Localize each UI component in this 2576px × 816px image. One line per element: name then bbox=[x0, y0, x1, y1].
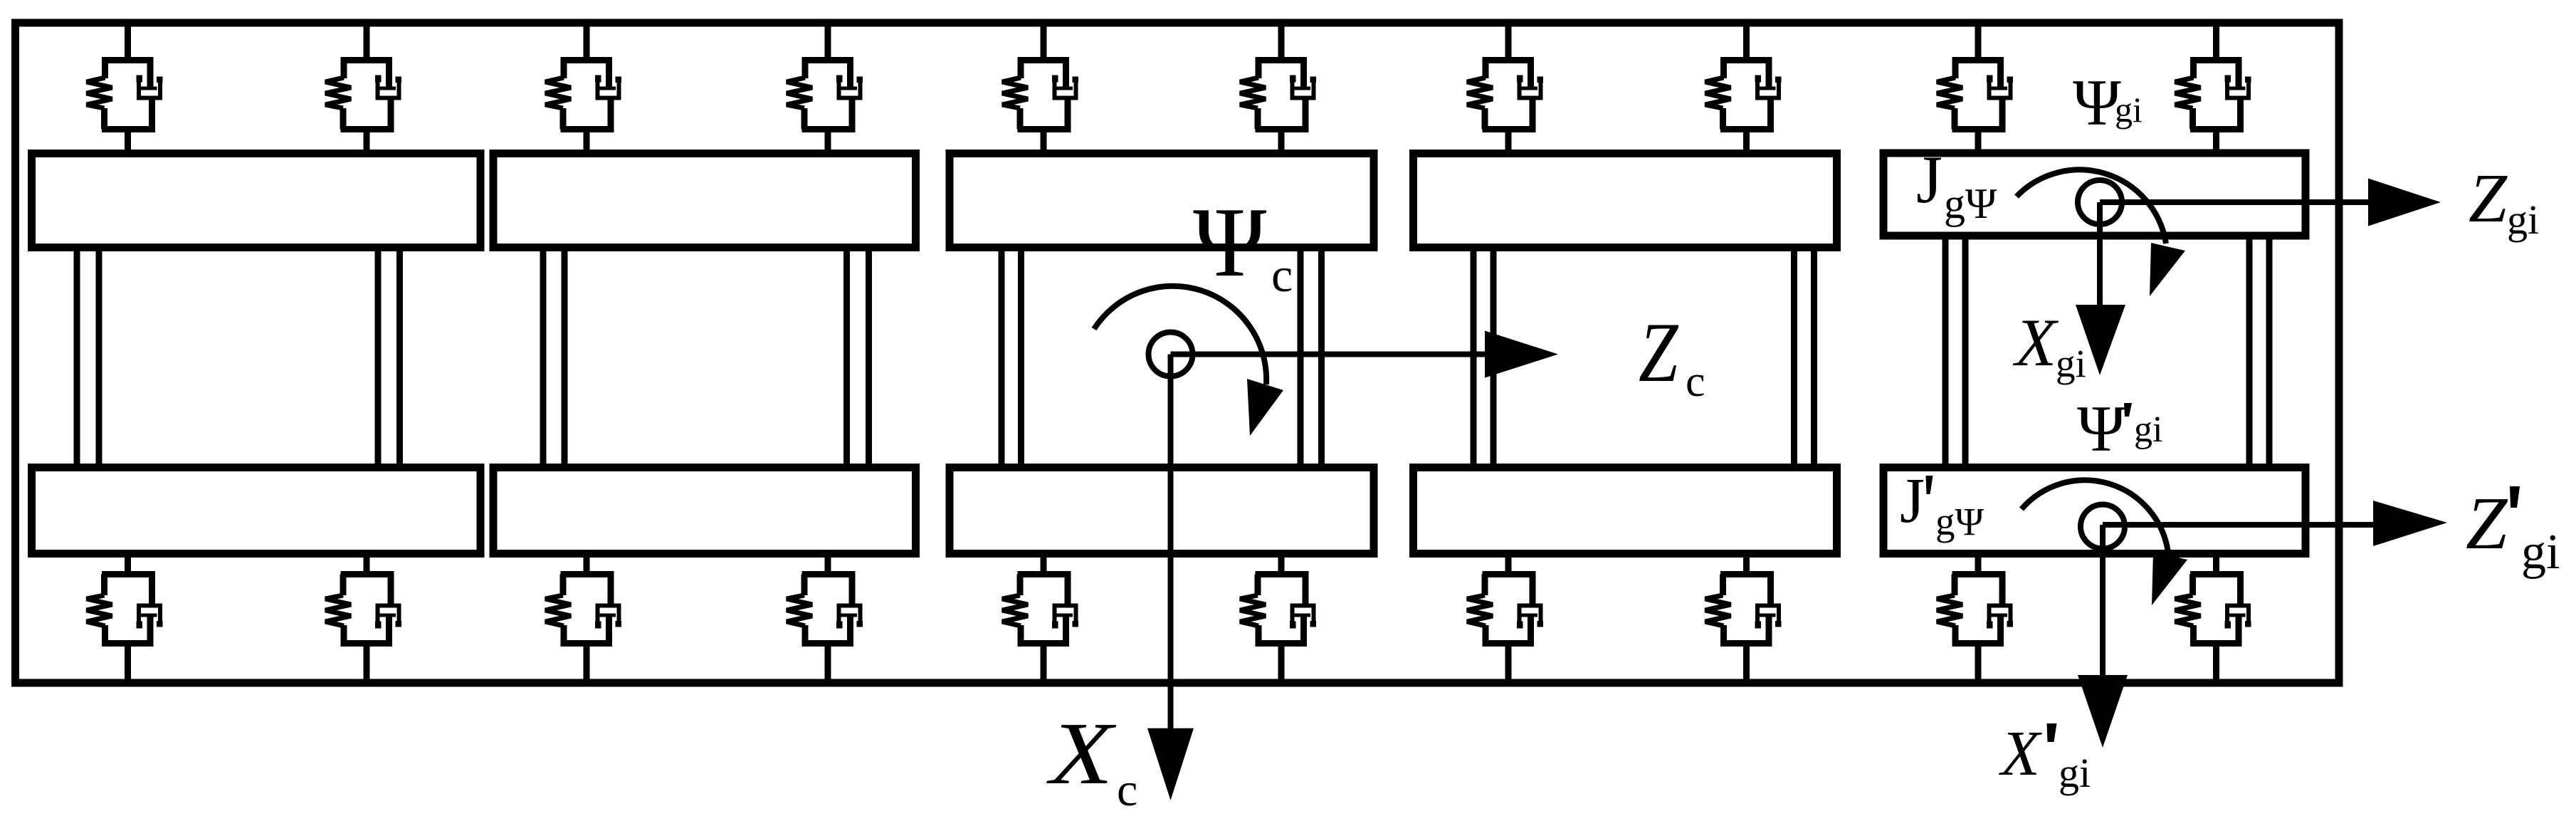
svg-text:Z: Z bbox=[2466, 481, 2508, 565]
svg-text:gi: gi bbox=[2521, 525, 2560, 580]
svg-text:X: X bbox=[1046, 704, 1118, 803]
svg-text:c: c bbox=[1686, 357, 1705, 406]
svg-text:Ψ: Ψ bbox=[2073, 66, 2121, 139]
svg-text:J: J bbox=[1916, 142, 1942, 217]
svg-text:gi: gi bbox=[2059, 750, 2091, 796]
svg-text:gΨ: gΨ bbox=[1944, 180, 1997, 227]
svg-text:Z: Z bbox=[2469, 160, 2508, 236]
svg-text:gi: gi bbox=[2507, 197, 2539, 243]
svg-text:gΨ: gΨ bbox=[1935, 500, 1984, 543]
svg-text:gi: gi bbox=[2056, 342, 2086, 385]
svg-text:gi: gi bbox=[2115, 90, 2143, 130]
svg-text:c: c bbox=[1117, 764, 1137, 816]
svg-text:Ψ: Ψ bbox=[2077, 392, 2125, 465]
svg-text:c: c bbox=[1271, 248, 1293, 302]
svg-text:Ψ: Ψ bbox=[1193, 187, 1266, 298]
svg-text:X: X bbox=[2012, 305, 2059, 380]
svg-text:Z: Z bbox=[1639, 305, 1679, 399]
svg-text:gi: gi bbox=[2134, 409, 2162, 450]
svg-text:X: X bbox=[1999, 718, 2042, 789]
svg-text:J: J bbox=[1900, 466, 1925, 536]
